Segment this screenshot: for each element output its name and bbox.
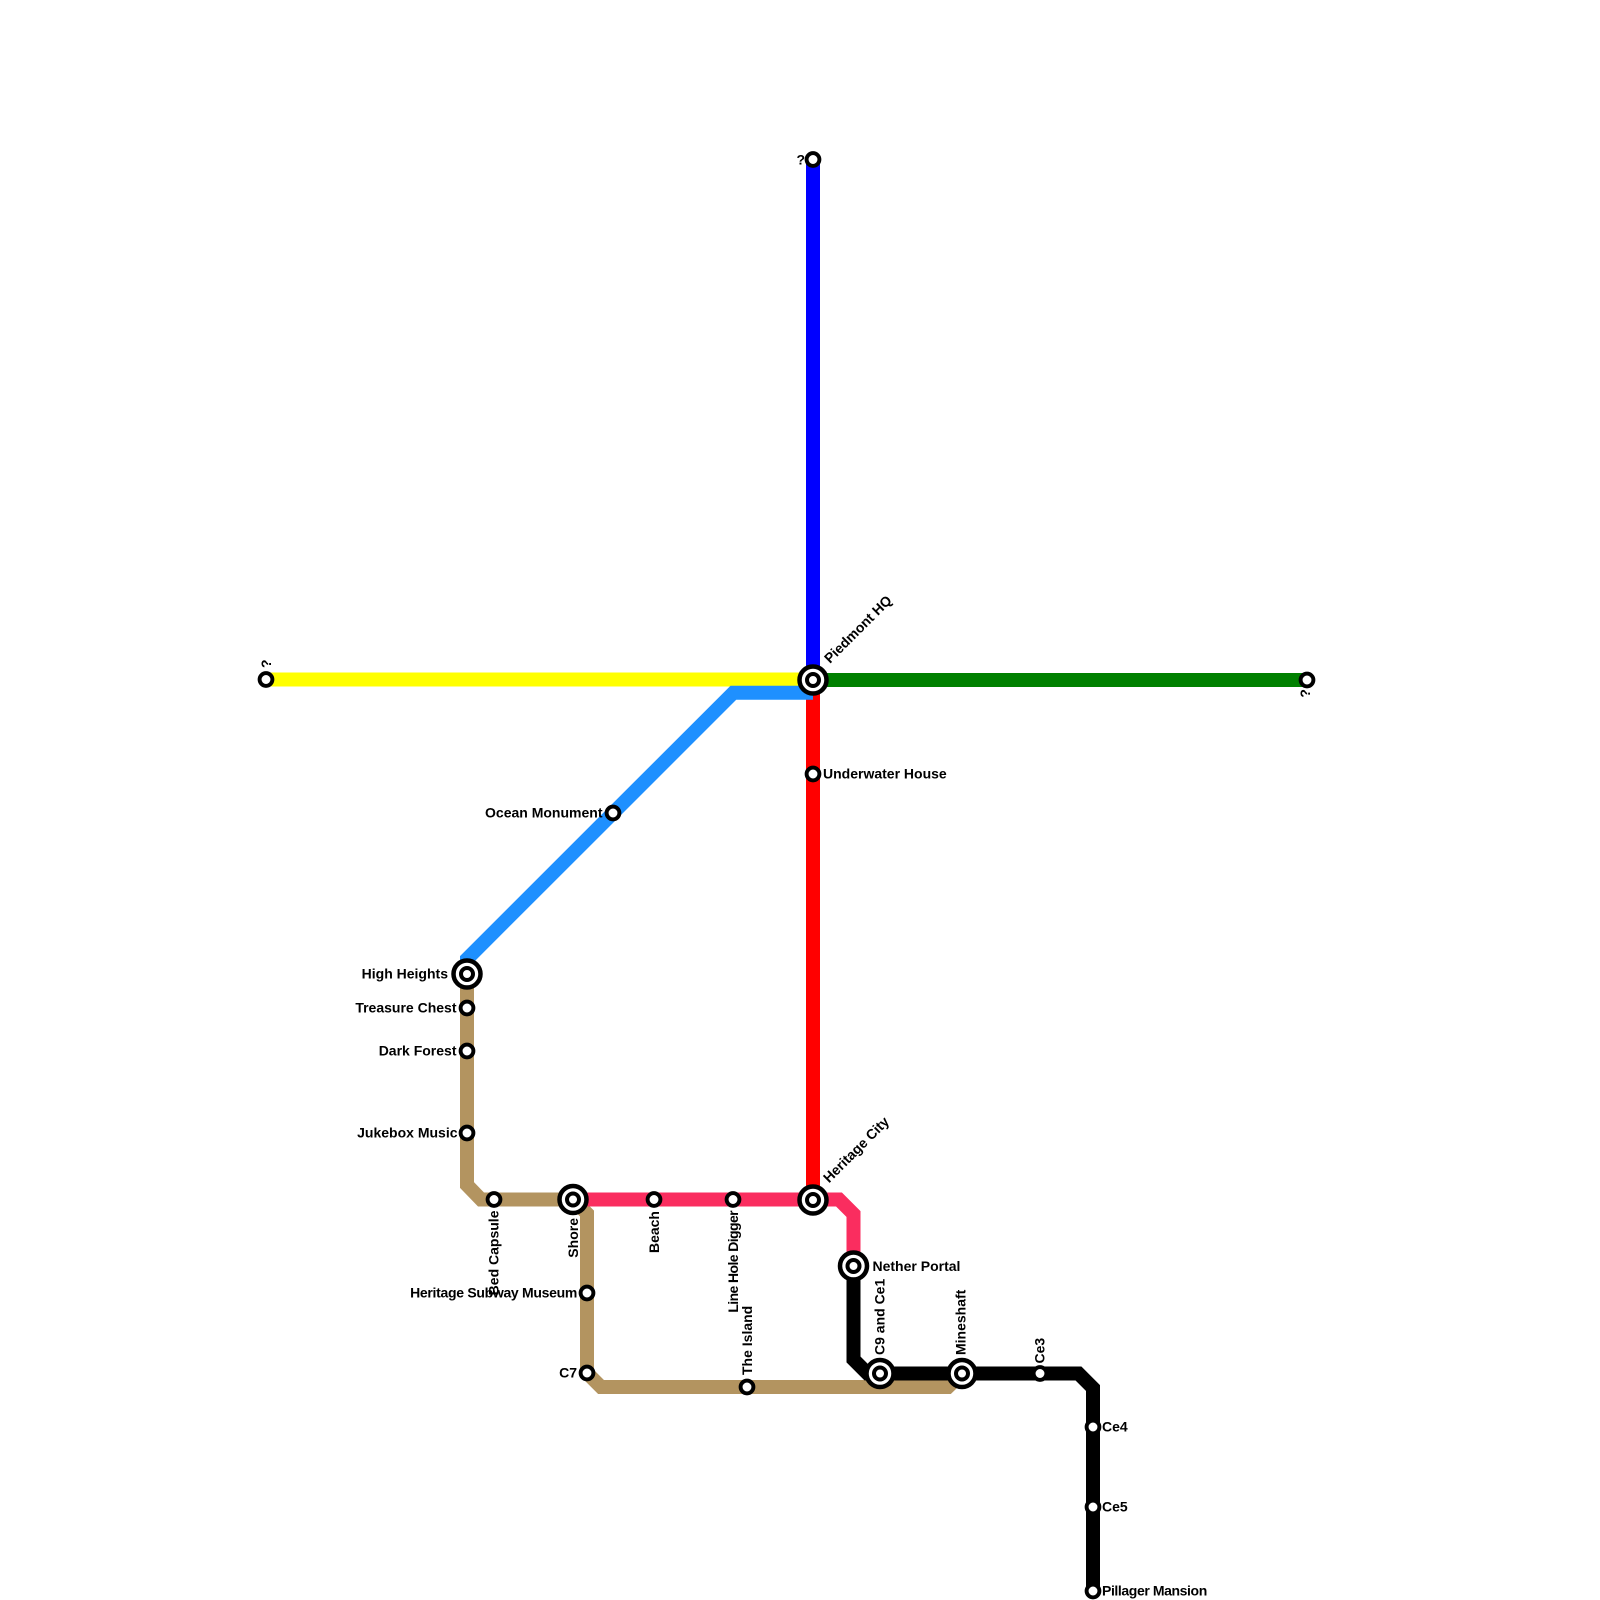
svg-text:Underwater House: Underwater House (823, 766, 947, 782)
station Dark Forest (461, 1045, 474, 1058)
station Ce3 (1034, 1367, 1047, 1380)
interchange C9 and Ce1 (867, 1360, 894, 1387)
svg-text:Ce3: Ce3 (1032, 1338, 1048, 1364)
svg-text:C9 and Ce1: C9 and Ce1 (872, 1279, 888, 1355)
station ? (blue north terminus) (807, 153, 820, 166)
interchange High Heights (454, 961, 481, 988)
svg-text:Beach: Beach (646, 1211, 662, 1253)
interchange Heritage City (800, 1187, 827, 1214)
station Ce5 (1087, 1501, 1100, 1514)
svg-text:Dark Forest: Dark Forest (379, 1043, 457, 1059)
svg-text:Jukebox Music: Jukebox Music (357, 1125, 458, 1141)
station Line Hole Digger (727, 1193, 740, 1206)
svg-text:Mineshaft: Mineshaft (953, 1289, 969, 1355)
station Heritage Subway Museum (581, 1287, 594, 1300)
svg-text:Ce5: Ce5 (1102, 1499, 1128, 1515)
svg-text:Ocean Monument: Ocean Monument (485, 805, 603, 821)
interchange Nether Portal (840, 1253, 867, 1280)
station Ce4 (1087, 1421, 1100, 1434)
black line (Nether Portal to Pillager Mansion) (854, 1266, 1094, 1591)
svg-text:?: ? (796, 152, 805, 168)
svg-text:Bed Capsule: Bed Capsule (486, 1210, 502, 1295)
tan line (High Heights to Mineshaft) (467, 974, 962, 1387)
svg-text:Pillager Mansion: Pillager Mansion (1102, 1583, 1207, 1599)
red line (south branch to Heritage City) (806, 680, 820, 1200)
station Jukebox Music (461, 1127, 474, 1140)
interchange Shore (560, 1186, 587, 1213)
interchange Mineshaft (949, 1360, 976, 1387)
svg-text:C7: C7 (559, 1365, 577, 1381)
blue line (north branch) (806, 160, 820, 680)
yellow line (west branch) (266, 673, 813, 687)
station The Island (741, 1381, 754, 1394)
svg-text:?: ? (1297, 689, 1313, 698)
svg-text:?: ? (258, 659, 274, 668)
svg-text:Heritage Subway Museum: Heritage Subway Museum (410, 1285, 577, 1301)
station Pillager Mansion (1087, 1585, 1100, 1598)
light blue line (hub to High Heights) (467, 693, 813, 974)
station Ocean Monument (607, 807, 620, 820)
svg-text:Ce4: Ce4 (1102, 1419, 1128, 1435)
svg-text:Line Hole Digger: Line Hole Digger (725, 1210, 741, 1313)
svg-text:High Heights: High Heights (362, 966, 449, 982)
station Bed Capsule (488, 1193, 501, 1206)
station Underwater House (807, 768, 820, 781)
station Treasure Chest (461, 1002, 474, 1015)
station ? (green east terminus) (1301, 674, 1314, 687)
green line (east branch) (813, 673, 1307, 687)
station Beach (648, 1193, 661, 1206)
pink line (Shore to Nether Portal) (573, 1200, 854, 1267)
svg-text:The Island: The Island (739, 1306, 755, 1375)
svg-text:Shore: Shore (565, 1218, 581, 1258)
station ? (yellow west terminus) (260, 673, 273, 686)
interchange Piedmont HQ (800, 667, 827, 694)
svg-text:Treasure Chest: Treasure Chest (355, 1000, 456, 1016)
svg-text:Nether Portal: Nether Portal (873, 1258, 961, 1274)
station C7 (581, 1367, 594, 1380)
